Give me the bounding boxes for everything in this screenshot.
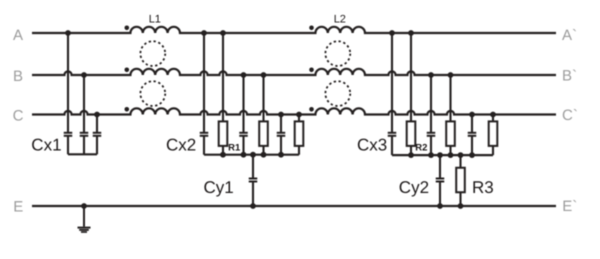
svg-text:E`: E` — [562, 198, 577, 215]
svg-text:L1: L1 — [149, 14, 161, 26]
svg-text:Cy1: Cy1 — [204, 178, 234, 197]
svg-text:C: C — [13, 107, 24, 124]
svg-text:B: B — [13, 68, 23, 85]
svg-text:A`: A` — [562, 27, 577, 44]
svg-text:R1: R1 — [228, 142, 241, 153]
svg-text:R2: R2 — [415, 142, 427, 153]
svg-text:C`: C` — [562, 107, 578, 124]
svg-text:R3: R3 — [472, 178, 494, 197]
svg-text:A: A — [13, 27, 23, 44]
svg-text:Cx2: Cx2 — [166, 135, 196, 154]
svg-text:L2: L2 — [334, 14, 346, 26]
svg-text:Cx3: Cx3 — [357, 135, 387, 154]
svg-text:E: E — [13, 199, 23, 216]
svg-text:Cy2: Cy2 — [399, 178, 429, 197]
svg-text:B`: B` — [562, 68, 577, 85]
svg-text:Cx1: Cx1 — [31, 135, 61, 154]
